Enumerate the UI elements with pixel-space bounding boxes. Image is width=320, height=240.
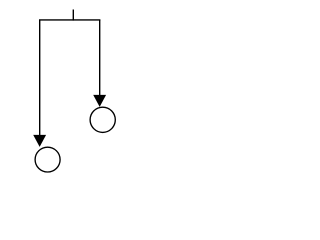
node circle right — [90, 107, 115, 132]
root stem tick — [72, 10, 74, 21]
wire left edge — [39, 20, 41, 136]
horizontal wire — [39, 19, 100, 21]
arrowhead left — [33, 135, 46, 147]
wire right edge — [99, 20, 101, 96]
arrowhead right — [93, 95, 106, 107]
node circle left — [35, 147, 60, 172]
